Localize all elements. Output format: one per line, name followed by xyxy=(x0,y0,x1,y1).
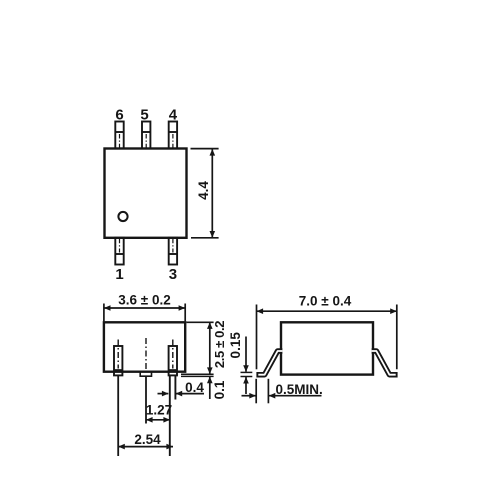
dimension 2.54 line xyxy=(118,446,173,448)
svg-text:0.4: 0.4 xyxy=(185,380,204,395)
dimension 2.5 arrow down xyxy=(207,367,213,374)
dimension 0.15 arrow up xyxy=(243,377,249,384)
svg-text:2.5 ± 0.2: 2.5 ± 0.2 xyxy=(212,321,227,368)
dimension 0.15 arrow down xyxy=(243,365,249,372)
pin 1 xyxy=(115,238,123,265)
pin 1 index dot xyxy=(118,212,127,221)
dimension 0.5MIN extension lines xyxy=(256,379,268,404)
pin 4 center dash xyxy=(172,134,174,148)
svg-text:3: 3 xyxy=(169,266,177,283)
dimension 7.0 arrows xyxy=(257,308,264,314)
svg-text:7.0 ± 0.4: 7.0 ± 0.4 xyxy=(299,294,352,309)
pin 6 center dash xyxy=(119,134,121,148)
svg-text:5: 5 xyxy=(140,106,148,123)
pin 3 centerline xyxy=(172,340,174,369)
dimension 4.4 extension lines xyxy=(191,149,219,238)
dimension 3.6 arrow left xyxy=(104,305,111,311)
dimension 4.4 arrow down xyxy=(210,231,216,238)
pin 1 centerline xyxy=(117,340,119,369)
dimension 0.4 left arrow xyxy=(158,391,169,397)
pin 3 center dash xyxy=(172,239,174,253)
dimension 1.27 arrows xyxy=(146,417,153,423)
left lead (gull wing) xyxy=(256,351,282,375)
dimension 7.0 extension lines xyxy=(257,305,397,370)
dimension 0.15 line lower xyxy=(245,377,247,394)
right lead (gull wing) xyxy=(372,351,398,375)
dimension 3.6 arrow right xyxy=(179,305,186,311)
svg-text:0.5MIN.: 0.5MIN. xyxy=(276,382,323,397)
dimension 2.5 top extension xyxy=(187,321,214,323)
pin 5 xyxy=(142,122,150,149)
pin 1 center dash xyxy=(119,239,121,253)
dimension 3.6 line xyxy=(104,307,185,309)
pin 3 front outline xyxy=(169,346,177,375)
package body (side view) xyxy=(281,322,373,374)
dimension 2.5 arrow up xyxy=(207,322,213,329)
svg-text:1.27: 1.27 xyxy=(146,403,172,418)
pin 4 xyxy=(169,122,177,149)
pin 3 extension lines below xyxy=(170,375,176,456)
dimension 0.4 right arrow xyxy=(176,391,204,397)
dimension 0.5MIN right arrow xyxy=(269,393,322,399)
svg-text:0.15: 0.15 xyxy=(228,332,243,359)
dimension 0.15 line upper xyxy=(245,337,247,372)
pin 1 extension line below xyxy=(117,375,119,456)
pin 5 center dash xyxy=(145,134,147,148)
dimension 0.1 line xyxy=(209,377,211,399)
dimension 0.1 arrow up xyxy=(207,377,213,384)
dimension 1.27 line xyxy=(146,419,170,421)
pin 2 stub xyxy=(140,372,151,376)
pin 2 extension line below xyxy=(145,376,147,423)
dimension 2.5 line xyxy=(209,323,211,375)
svg-text:4.4: 4.4 xyxy=(196,181,211,200)
pin 1 front outline xyxy=(114,346,122,375)
dimension 0.5MIN left arrow xyxy=(242,393,256,399)
body edge gaps at lead junctions xyxy=(280,349,375,354)
seating plane lines xyxy=(181,374,214,376)
svg-text:2.54: 2.54 xyxy=(134,432,161,447)
lead thickness ticks xyxy=(241,372,253,376)
dimension 3.6 extension lines xyxy=(104,304,185,322)
dimension 4.4 line xyxy=(211,149,213,238)
svg-text:1: 1 xyxy=(115,266,123,283)
pin 6 xyxy=(115,122,123,149)
svg-text:3.6 ± 0.2: 3.6 ± 0.2 xyxy=(118,293,170,308)
dimension 2.54 arrows xyxy=(118,444,125,450)
package body (front view) xyxy=(104,322,185,371)
svg-text:0.1: 0.1 xyxy=(212,380,227,399)
dimension 4.4 arrow up xyxy=(210,149,216,156)
svg-text:4: 4 xyxy=(169,106,178,123)
pin 2 centerline xyxy=(145,338,147,372)
pin 3 xyxy=(169,238,177,265)
dimension 7.0 line xyxy=(257,310,397,312)
package body (top view) xyxy=(105,149,187,238)
svg-text:6: 6 xyxy=(115,106,123,123)
